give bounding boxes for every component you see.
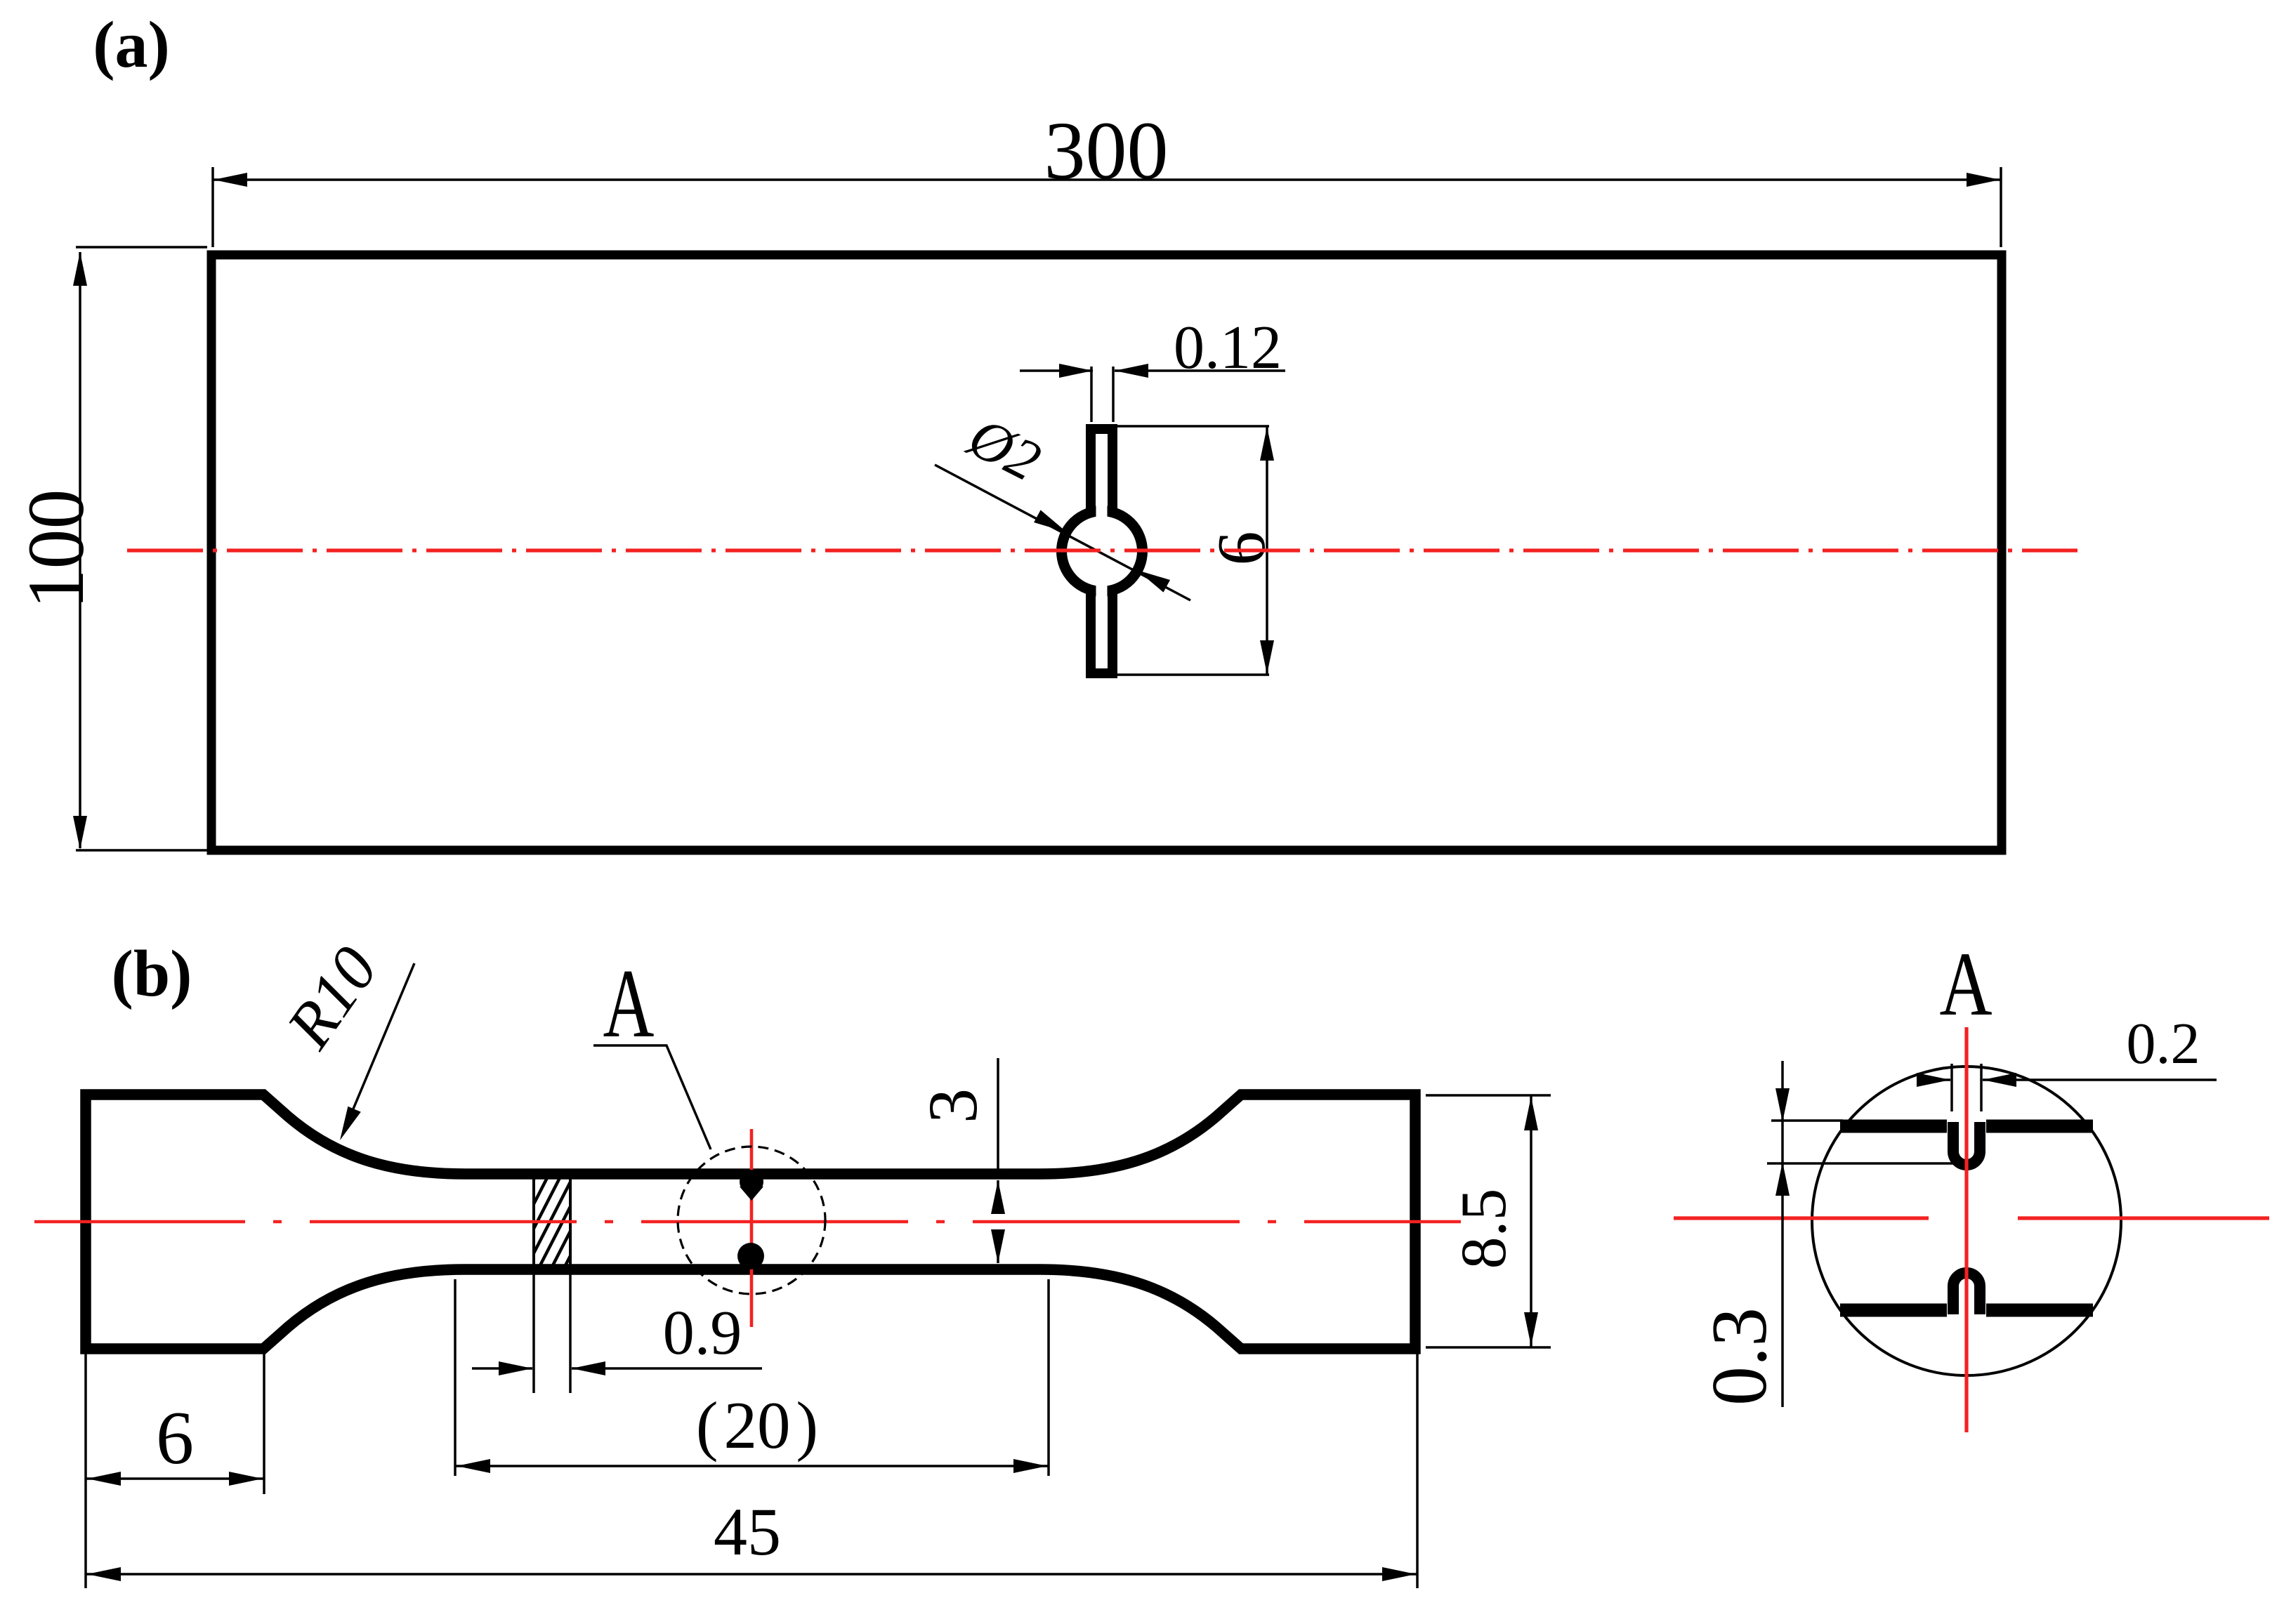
- dim 45 arrow left: [87, 1567, 121, 1581]
- hole ring: [1062, 511, 1143, 592]
- dim 20 extension left: [454, 1279, 457, 1476]
- dimension 300 line: [213, 178, 2001, 181]
- detail upper notch: [1953, 1122, 1980, 1165]
- R10 leader: [343, 963, 414, 1134]
- R10 arrow: [340, 1107, 361, 1140]
- detail bottom surface left: [1840, 1304, 1947, 1317]
- dim 0.12 arrow right: [1115, 364, 1148, 378]
- svg-text:0.12: 0.12: [1174, 314, 1282, 382]
- slit bottom cap: [1086, 668, 1117, 678]
- label A leader (b): [593, 1045, 711, 1149]
- red vertical centerline detail: [1964, 1027, 1968, 1432]
- dim 3 arrow up: [997, 1180, 999, 1212]
- dim 0.9 line right: [572, 1367, 762, 1370]
- dim 0.3 extension upper: [1771, 1119, 1843, 1122]
- dim 0.9 arrow right: [572, 1361, 605, 1375]
- svg-text:0.9: 0.9: [663, 1298, 742, 1368]
- dim 8.5 extension bottom: [1426, 1346, 1551, 1349]
- dim 0.9 extension right: [569, 1274, 572, 1393]
- centerline (a): [127, 548, 2077, 552]
- dim 6b extension right: [263, 1354, 265, 1494]
- dim 0.2 extension right: [1980, 1064, 1983, 1111]
- dim 0.9 line left: [472, 1367, 532, 1370]
- svg-text:( 20 ): ( 20 ): [696, 1388, 818, 1463]
- notch marker bottom: [737, 1243, 764, 1269]
- dim 6a arrow top: [1260, 427, 1274, 461]
- dimension 100 line: [79, 252, 81, 848]
- svg-text:6: 6: [1204, 532, 1280, 566]
- svg-text:8.5: 8.5: [1448, 1189, 1519, 1269]
- detail lower notch: [1953, 1273, 1980, 1314]
- dim 6a extension top: [1117, 425, 1269, 428]
- section hatch left border: [532, 1179, 535, 1265]
- slit right wall: [1108, 424, 1117, 678]
- dim 45 arrow right: [1382, 1567, 1416, 1581]
- svg-text:0.2: 0.2: [2127, 1011, 2200, 1076]
- svg-text:6: 6: [156, 1397, 194, 1480]
- detail circle A (b): [678, 1147, 825, 1294]
- dim 6b arrow left: [87, 1472, 121, 1486]
- slit left wall: [1086, 424, 1096, 678]
- diameter leader line: [935, 465, 1190, 600]
- detail bottom surface right: [1986, 1304, 2093, 1317]
- dim 0.2 line right: [1983, 1078, 2217, 1081]
- dim 6a extension bottom: [1117, 673, 1269, 676]
- dim 20 arrow left: [457, 1459, 490, 1473]
- dim 45 extension left: [84, 1354, 87, 1588]
- dimension 300 arrow right: [1967, 173, 2000, 187]
- dim 6b line: [86, 1477, 264, 1480]
- svg-text:45: 45: [714, 1494, 781, 1569]
- hole interior: [1067, 516, 1137, 586]
- svg-text:0.3: 0.3: [1696, 1307, 1783, 1406]
- dim 0.3 arrow down: [1775, 1088, 1790, 1122]
- dimension 300 extension line right: [2000, 167, 2002, 247]
- diameter arrow upper: [1034, 510, 1067, 532]
- detail boundary circle: [1812, 1067, 2121, 1375]
- dim 0.2 arrow left: [1917, 1073, 1950, 1087]
- dimension 100 extension line bottom: [76, 849, 207, 852]
- red centerline (b): [34, 1220, 1461, 1224]
- dim 8.5 extension top: [1426, 1094, 1551, 1097]
- dim 20 line: [455, 1465, 1049, 1467]
- detail top surface left: [1840, 1120, 1947, 1133]
- svg-text:300: 300: [1044, 105, 1169, 197]
- notch marker top: [740, 1170, 763, 1194]
- dimension 100 arrow top: [73, 252, 87, 286]
- svg-text:A: A: [603, 949, 655, 1058]
- dim 20 arrow right: [1013, 1459, 1047, 1473]
- dim 8.5 arrow top: [1524, 1097, 1538, 1130]
- dim 6a line: [1266, 426, 1268, 675]
- red horizontal centerline detail right: [2018, 1216, 2269, 1220]
- plate outline rectangle 300x100: [211, 255, 2002, 850]
- dim 6a arrow bottom: [1260, 640, 1274, 674]
- dim 0.12 line right: [1115, 369, 1285, 372]
- dimension 300 arrow left: [214, 173, 247, 187]
- dim 8.5 arrow bottom: [1524, 1312, 1538, 1346]
- dim 0.2 extension left: [1950, 1064, 1953, 1111]
- dim 0.2 arrow right: [1983, 1073, 2016, 1087]
- dim 0.9 arrow left: [499, 1361, 532, 1375]
- dim 0.12 arrow left: [1059, 364, 1093, 378]
- dim 0.3 line: [1781, 1061, 1784, 1407]
- specimen outline: [86, 1095, 1415, 1349]
- dim 45 extension right: [1416, 1354, 1419, 1588]
- diameter arrow lower: [1137, 570, 1170, 593]
- dim 20 extension right: [1047, 1279, 1050, 1476]
- dim 3 line upper: [997, 1058, 999, 1174]
- red horizontal centerline detail left: [1674, 1216, 1929, 1220]
- svg-text:3: 3: [914, 1088, 992, 1123]
- dim 0.3 arrow up: [1775, 1162, 1790, 1196]
- dim 3 arrow down: [997, 1232, 999, 1263]
- red vertical centerline detail b: [750, 1129, 754, 1327]
- dimension 300 extension line left: [211, 167, 214, 247]
- dim 0.2 line left: [1917, 1078, 1950, 1081]
- section hatch right border: [569, 1179, 572, 1265]
- dim 0.9 extension left: [532, 1274, 535, 1393]
- dim 6b arrow right: [229, 1472, 263, 1486]
- dim 8.5 line: [1530, 1095, 1532, 1347]
- dim 45 line: [86, 1573, 1417, 1576]
- slit channel: [1096, 434, 1108, 668]
- dim 0.12 extension left: [1090, 367, 1093, 422]
- dim 0.12 extension right: [1112, 367, 1115, 422]
- dim 0.12 line left: [1020, 369, 1093, 372]
- slit top cap: [1086, 424, 1117, 434]
- dimension 100 extension line top: [76, 246, 207, 249]
- svg-text:(b): (b): [112, 937, 192, 1010]
- svg-text:A: A: [1939, 934, 1992, 1035]
- dim 0.3 extension lower: [1767, 1162, 1960, 1165]
- svg-text:100: 100: [11, 489, 100, 609]
- dimension 100 arrow bottom: [73, 816, 87, 850]
- svg-text:(a): (a): [93, 8, 170, 81]
- detail top surface right: [1986, 1120, 2093, 1133]
